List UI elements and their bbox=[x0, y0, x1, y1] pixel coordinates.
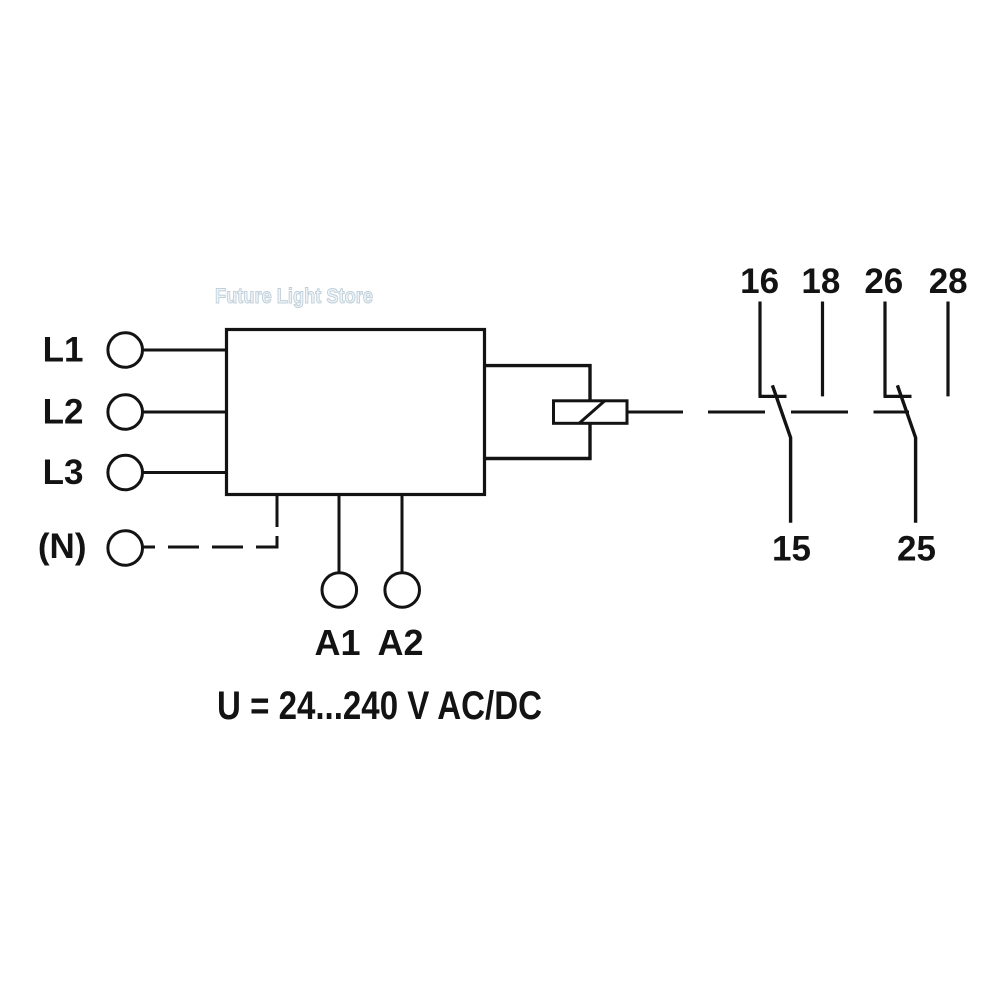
svg-text:15: 15 bbox=[772, 530, 811, 569]
svg-text:Future Light Store: Future Light Store bbox=[215, 285, 373, 308]
svg-text:25: 25 bbox=[897, 530, 936, 569]
terminal L2 bbox=[108, 395, 143, 430]
contact 16 fixed tick bbox=[759, 395, 787, 398]
wire coil bracket bottom bbox=[484, 457, 592, 460]
wire (N) dashed horizontal bbox=[143, 536, 278, 547]
wire contact 26 vertical bbox=[883, 302, 886, 397]
contact 26 fixed tick bbox=[884, 395, 912, 398]
svg-text:26: 26 bbox=[864, 262, 903, 301]
terminal L1 bbox=[108, 333, 143, 368]
svg-text:U = 24...240 V AC/DC: U = 24...240 V AC/DC bbox=[217, 684, 542, 728]
terminal A2 bbox=[385, 573, 420, 608]
svg-text:A2: A2 bbox=[377, 622, 423, 663]
svg-text:L2: L2 bbox=[43, 393, 84, 432]
wire L1 to box bbox=[143, 349, 227, 352]
terminal (N) bbox=[108, 531, 143, 566]
terminal A1 bbox=[322, 573, 357, 608]
svg-text:28: 28 bbox=[929, 262, 968, 301]
wire L3 to box bbox=[143, 471, 227, 474]
wire coil bracket vertical bbox=[588, 364, 591, 460]
wire L2 to box bbox=[143, 411, 227, 414]
svg-text:18: 18 bbox=[801, 262, 840, 301]
contact arm 15-16 bbox=[772, 385, 790, 523]
relay coil slash bbox=[579, 401, 605, 424]
wire contact 28 vertical bbox=[946, 302, 949, 397]
wire contact 16 vertical bbox=[758, 302, 761, 397]
terminal L3 bbox=[108, 455, 143, 490]
svg-text:(N): (N) bbox=[38, 527, 87, 566]
wire A1 from box bottom bbox=[338, 495, 341, 573]
svg-text:L3: L3 bbox=[43, 453, 84, 492]
svg-text:16: 16 bbox=[740, 262, 779, 301]
mechanical link dashed line bbox=[627, 411, 909, 414]
contact arm 25-26 bbox=[897, 385, 915, 523]
svg-text:A1: A1 bbox=[314, 622, 360, 663]
relay coil K1 bbox=[554, 401, 628, 424]
wire contact 18 vertical bbox=[821, 302, 824, 397]
wire A2 from box bottom bbox=[401, 495, 404, 573]
wire coil bracket top bbox=[484, 364, 592, 367]
device box U1 bbox=[227, 330, 485, 495]
svg-text:L1: L1 bbox=[43, 331, 84, 370]
wire (N) stub from box bottom bbox=[276, 495, 279, 528]
